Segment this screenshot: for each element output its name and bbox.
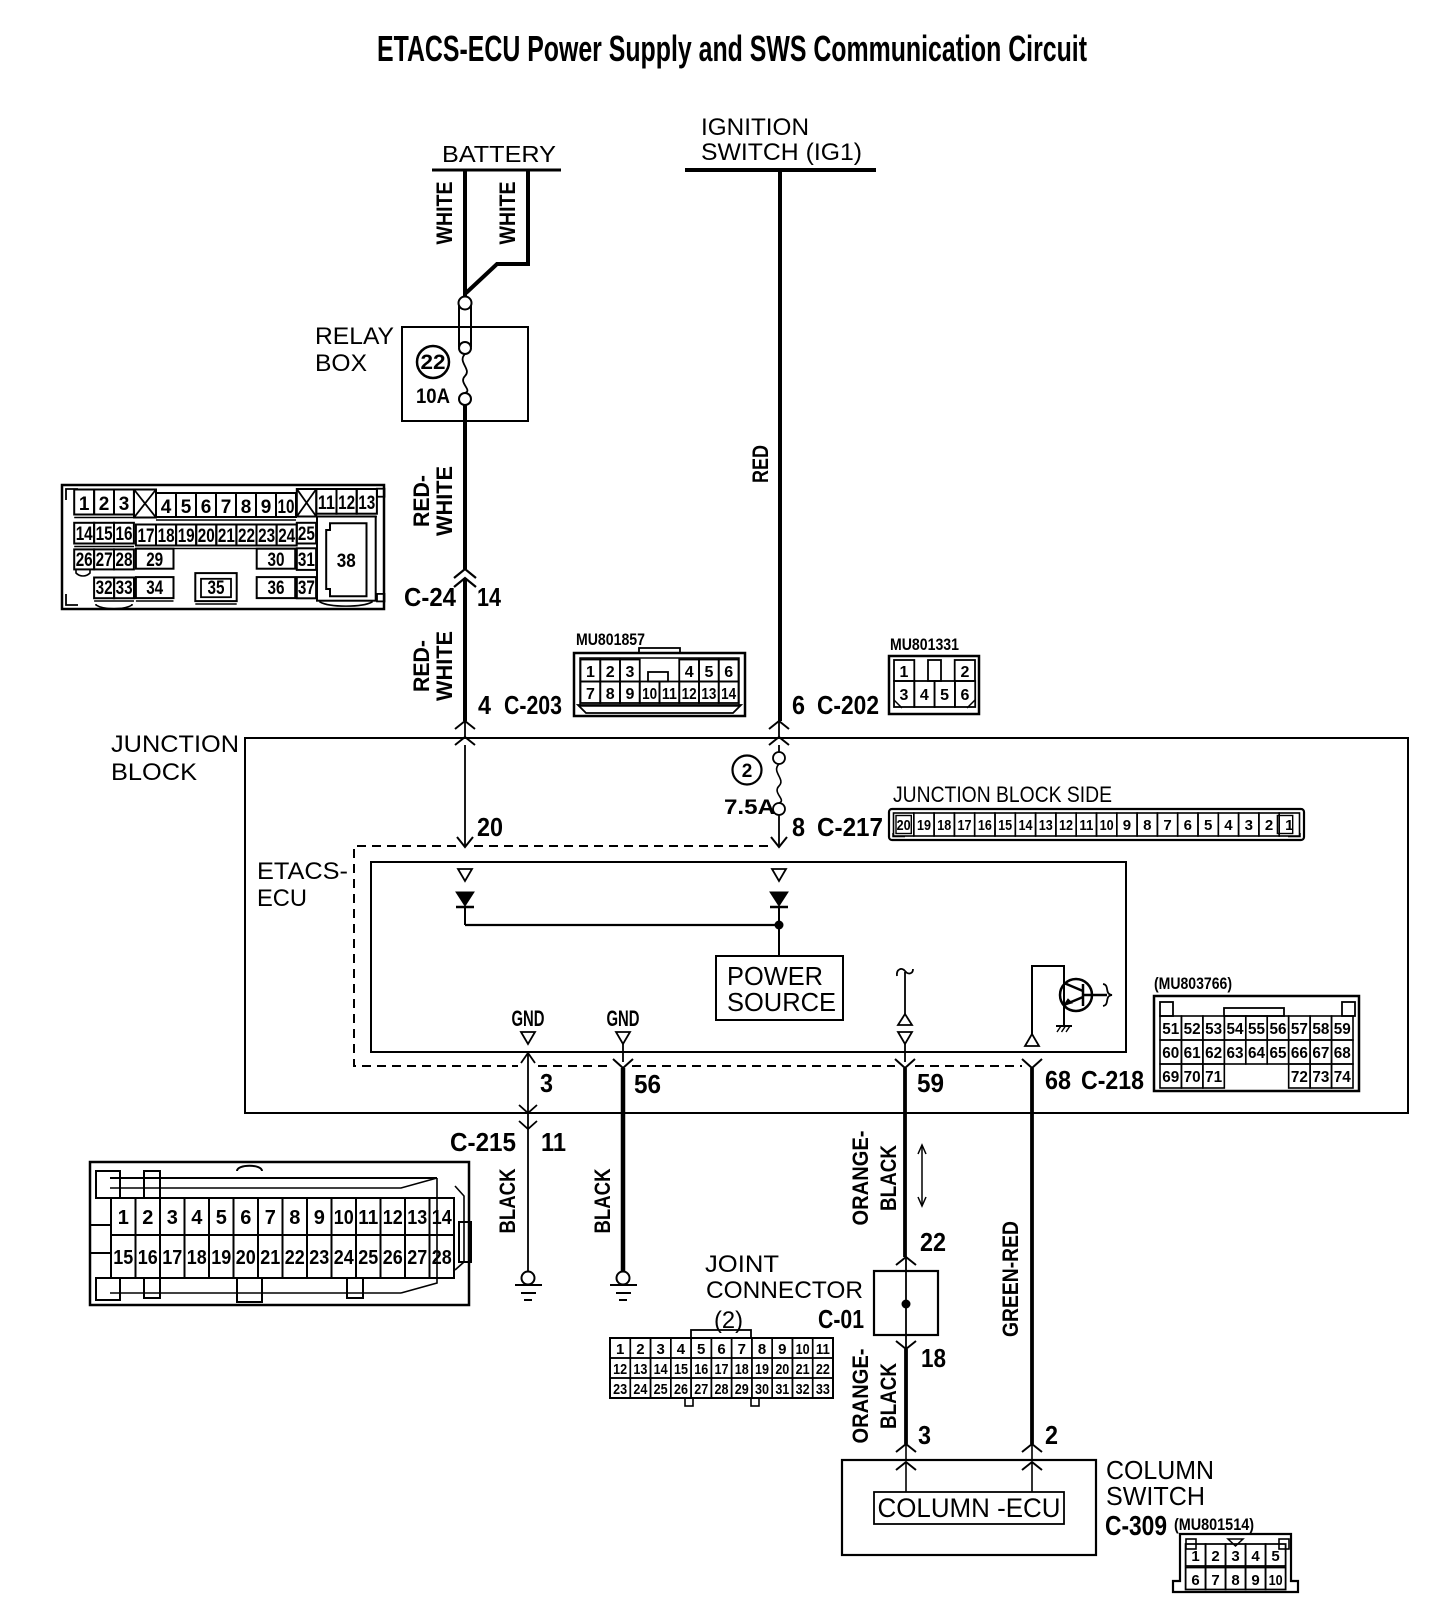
transistor emitter ground bbox=[1056, 1025, 1072, 1027]
svg-text:58: 58 bbox=[1312, 1021, 1329, 1038]
connector C-202 pin numbers bbox=[900, 664, 970, 704]
ground G2 bbox=[617, 1272, 630, 1285]
pin number 18 bbox=[896, 1341, 916, 1349]
wire RED-WHITE C-24 to C-203 bbox=[463, 578, 467, 721]
svg-text:7: 7 bbox=[1211, 1572, 1219, 1589]
svg-text:16: 16 bbox=[116, 524, 133, 545]
connector C-203 drawing bbox=[574, 648, 745, 716]
svg-text:28: 28 bbox=[715, 1381, 729, 1398]
svg-text:20: 20 bbox=[897, 817, 911, 834]
svg-text:5: 5 bbox=[1204, 817, 1212, 834]
svg-text:57: 57 bbox=[1291, 1021, 1308, 1038]
svg-text:5: 5 bbox=[216, 1207, 227, 1229]
svg-text:8: 8 bbox=[1143, 817, 1151, 834]
svg-text:19: 19 bbox=[211, 1247, 231, 1269]
svg-text:2: 2 bbox=[636, 1341, 644, 1358]
svg-text:8: 8 bbox=[606, 686, 615, 703]
wire pin 3 GND lead bbox=[527, 1052, 529, 1272]
svg-text:SWITCH: SWITCH bbox=[1106, 1481, 1205, 1511]
svg-text:ORANGE-: ORANGE- bbox=[848, 1131, 873, 1226]
svg-text:11: 11 bbox=[541, 1127, 566, 1157]
svg-text:6: 6 bbox=[201, 497, 212, 518]
svg-text:68: 68 bbox=[1045, 1065, 1071, 1095]
svg-text:9: 9 bbox=[1123, 817, 1131, 834]
svg-text:4: 4 bbox=[478, 690, 491, 720]
svg-text:5: 5 bbox=[704, 664, 713, 681]
joint connector drawing bbox=[610, 1330, 833, 1406]
wire pin 59 SWS line bbox=[904, 1044, 906, 1062]
svg-text:27: 27 bbox=[694, 1381, 708, 1398]
svg-text:7: 7 bbox=[738, 1341, 746, 1358]
svg-text:74: 74 bbox=[1334, 1069, 1351, 1086]
svg-text:WHITE: WHITE bbox=[432, 631, 457, 701]
svg-text:20: 20 bbox=[477, 812, 503, 842]
svg-text:BLACK: BLACK bbox=[495, 1168, 520, 1233]
wire pin 56 GND lead bbox=[622, 1044, 624, 1062]
svg-text:15: 15 bbox=[113, 1247, 133, 1269]
svg-text:RED-: RED- bbox=[409, 475, 434, 527]
svg-text:24: 24 bbox=[278, 526, 295, 547]
svg-text:4: 4 bbox=[161, 497, 172, 518]
svg-text:GREEN-RED: GREEN-RED bbox=[998, 1221, 1023, 1337]
svg-text:28: 28 bbox=[432, 1247, 452, 1269]
svg-text:2: 2 bbox=[606, 664, 615, 681]
svg-text:18: 18 bbox=[158, 526, 175, 547]
svg-text:3: 3 bbox=[540, 1068, 553, 1098]
svg-text:22: 22 bbox=[421, 351, 446, 374]
svg-text:1: 1 bbox=[586, 664, 595, 681]
connector crossing C-309 pin 3 bbox=[896, 1444, 916, 1452]
svg-text:RED-: RED- bbox=[409, 640, 434, 692]
column switch box bbox=[842, 1460, 1096, 1555]
connector C-218 pin numbers bbox=[1162, 1021, 1351, 1086]
svg-text:23: 23 bbox=[258, 526, 275, 547]
connector C-24 drawing bbox=[62, 485, 385, 609]
svg-text:4: 4 bbox=[920, 687, 929, 704]
svg-text:55: 55 bbox=[1248, 1021, 1265, 1038]
svg-text:9: 9 bbox=[261, 497, 272, 518]
svg-text:29: 29 bbox=[146, 550, 163, 571]
connector C-218 drawing bbox=[1154, 996, 1359, 1091]
svg-text:63: 63 bbox=[1227, 1045, 1244, 1062]
svg-text:13: 13 bbox=[358, 493, 375, 514]
svg-text:26: 26 bbox=[383, 1247, 403, 1269]
svg-text:52: 52 bbox=[1184, 1021, 1201, 1038]
svg-text:27: 27 bbox=[96, 550, 113, 571]
svg-text:11: 11 bbox=[1079, 817, 1093, 834]
fuse 2 7.5A inside junction block bbox=[778, 745, 780, 752]
svg-text:38: 38 bbox=[337, 551, 356, 572]
svg-text:12: 12 bbox=[1059, 817, 1073, 834]
svg-text:SWITCH (IG1): SWITCH (IG1) bbox=[701, 139, 862, 166]
svg-text:16: 16 bbox=[694, 1361, 708, 1378]
svg-text:15: 15 bbox=[674, 1361, 688, 1378]
svg-text:17: 17 bbox=[162, 1247, 182, 1269]
svg-text:C-309: C-309 bbox=[1105, 1510, 1167, 1541]
svg-text:16: 16 bbox=[138, 1247, 158, 1269]
svg-text:19: 19 bbox=[755, 1361, 769, 1378]
svg-text:14: 14 bbox=[432, 1207, 453, 1229]
svg-text:7: 7 bbox=[1163, 817, 1171, 834]
svg-text:WHITE: WHITE bbox=[432, 182, 457, 245]
svg-text:25: 25 bbox=[358, 1247, 378, 1269]
svg-text:25: 25 bbox=[298, 524, 315, 545]
svg-text:12: 12 bbox=[338, 493, 355, 514]
svg-text:6: 6 bbox=[240, 1207, 251, 1229]
svg-text:21: 21 bbox=[796, 1361, 810, 1378]
wire pin 68 SWS output bbox=[1022, 1059, 1042, 1068]
svg-text:7: 7 bbox=[221, 497, 232, 518]
svg-text:3: 3 bbox=[119, 494, 130, 515]
svg-text:16: 16 bbox=[978, 817, 992, 834]
svg-text:4: 4 bbox=[191, 1207, 203, 1229]
svg-text:2: 2 bbox=[961, 664, 970, 681]
svg-text:6: 6 bbox=[1191, 1572, 1199, 1589]
node junction dot bbox=[775, 921, 784, 930]
svg-text:32: 32 bbox=[796, 1381, 810, 1398]
svg-text:GND: GND bbox=[512, 1006, 545, 1031]
svg-text:10: 10 bbox=[796, 1341, 810, 1358]
svg-text:60: 60 bbox=[1162, 1045, 1179, 1062]
svg-text:5: 5 bbox=[1271, 1548, 1279, 1565]
svg-text:BLOCK: BLOCK bbox=[111, 759, 197, 786]
svg-text:26: 26 bbox=[76, 550, 93, 571]
svg-text:65: 65 bbox=[1269, 1045, 1286, 1062]
svg-text:11: 11 bbox=[318, 493, 335, 514]
svg-text:GND: GND bbox=[607, 1006, 640, 1031]
svg-text:13: 13 bbox=[633, 1361, 647, 1378]
connector crossing C-202 on junction block border bbox=[769, 721, 789, 729]
svg-text:37: 37 bbox=[298, 578, 315, 599]
svg-text:1: 1 bbox=[1285, 817, 1293, 834]
svg-text:53: 53 bbox=[1205, 1021, 1222, 1038]
svg-text:ETACS-: ETACS- bbox=[257, 858, 348, 885]
svg-text:6: 6 bbox=[960, 687, 969, 704]
svg-text:36: 36 bbox=[268, 578, 285, 599]
svg-text:12: 12 bbox=[613, 1361, 627, 1378]
wire RED ignition feed bbox=[778, 170, 782, 721]
svg-text:4: 4 bbox=[1251, 1548, 1260, 1565]
svg-text:RELAY: RELAY bbox=[315, 323, 394, 350]
svg-text:23: 23 bbox=[613, 1381, 627, 1398]
wire pin20 feed inside junction block bbox=[464, 745, 466, 846]
svg-text:8: 8 bbox=[241, 497, 252, 518]
svg-text:69: 69 bbox=[1162, 1069, 1179, 1086]
svg-text:1: 1 bbox=[79, 494, 90, 515]
svg-text:9: 9 bbox=[778, 1341, 786, 1358]
connector crossing C-309 pin 2 bbox=[1022, 1444, 1042, 1452]
svg-text:5: 5 bbox=[181, 497, 192, 518]
svg-text:3: 3 bbox=[1231, 1548, 1239, 1565]
svg-text:C-01: C-01 bbox=[818, 1304, 864, 1334]
svg-text:C-203: C-203 bbox=[504, 690, 562, 720]
ecu pin terminal at 59 bbox=[898, 1032, 912, 1044]
svg-text:COLUMN -ECU: COLUMN -ECU bbox=[878, 1493, 1061, 1523]
wire WHITE battery feed 1 bbox=[463, 170, 467, 297]
svg-text:C-202: C-202 bbox=[817, 690, 879, 720]
svg-text:15: 15 bbox=[998, 817, 1012, 834]
svg-text:10: 10 bbox=[642, 686, 657, 703]
svg-text:17: 17 bbox=[138, 526, 155, 547]
svg-text:59: 59 bbox=[917, 1068, 944, 1098]
wire base drive for transistor bbox=[1032, 966, 1064, 1046]
svg-text:11: 11 bbox=[358, 1207, 378, 1229]
svg-text:32: 32 bbox=[96, 578, 113, 599]
svg-text:17: 17 bbox=[715, 1361, 729, 1378]
svg-text:14: 14 bbox=[721, 686, 736, 703]
svg-text:4: 4 bbox=[685, 664, 694, 681]
svg-text:2: 2 bbox=[99, 494, 110, 515]
svg-text:22: 22 bbox=[285, 1247, 305, 1269]
svg-text:61: 61 bbox=[1184, 1045, 1201, 1062]
svg-text:59: 59 bbox=[1334, 1021, 1351, 1038]
svg-text:(MU803766): (MU803766) bbox=[1154, 974, 1232, 993]
svg-text:19: 19 bbox=[178, 526, 195, 547]
svg-text:19: 19 bbox=[917, 817, 931, 834]
fuse number circle 22 bbox=[417, 346, 449, 378]
svg-text:RED: RED bbox=[748, 445, 773, 483]
wire diode outputs joined bbox=[465, 924, 779, 926]
svg-text:35: 35 bbox=[208, 578, 225, 599]
ETACS-ECU dashed boundary bbox=[354, 846, 1022, 1066]
svg-text:8: 8 bbox=[289, 1207, 300, 1229]
svg-text:68: 68 bbox=[1334, 1045, 1351, 1062]
relay box bbox=[402, 327, 528, 421]
svg-text:4: 4 bbox=[677, 1341, 686, 1358]
joint connector C-01 box bbox=[896, 1257, 916, 1265]
svg-text:3: 3 bbox=[918, 1420, 931, 1450]
connector C-215 drawing bbox=[90, 1162, 471, 1305]
fuse 22 10A terminals and element bbox=[459, 297, 472, 310]
svg-text:JUNCTION BLOCK SIDE: JUNCTION BLOCK SIDE bbox=[893, 782, 1112, 807]
ETACS-ECU internal box bbox=[371, 862, 1126, 1052]
svg-text:2: 2 bbox=[742, 761, 753, 782]
svg-text:9: 9 bbox=[1251, 1572, 1259, 1589]
svg-text:22: 22 bbox=[920, 1227, 946, 1257]
svg-text:ORANGE-: ORANGE- bbox=[848, 1349, 873, 1444]
svg-text:SOURCE: SOURCE bbox=[727, 987, 836, 1017]
svg-text:ETACS-ECU Power Supply and SWS: ETACS-ECU Power Supply and SWS Communica… bbox=[377, 28, 1087, 69]
ecu pin terminal at 8 bbox=[772, 869, 786, 881]
svg-text:22: 22 bbox=[816, 1361, 830, 1378]
wire RED-WHITE relay to C-24 bbox=[463, 405, 467, 569]
svg-text:18: 18 bbox=[937, 817, 951, 834]
ecu pin terminal at 20 bbox=[458, 869, 472, 881]
connector C-24 pin numbers bbox=[76, 493, 376, 599]
svg-text:18: 18 bbox=[187, 1247, 207, 1269]
joint connector pin numbers bbox=[613, 1341, 830, 1398]
svg-text:56: 56 bbox=[1269, 1021, 1286, 1038]
svg-text:11: 11 bbox=[816, 1341, 830, 1358]
svg-text:12: 12 bbox=[383, 1207, 403, 1229]
svg-text:C-218: C-218 bbox=[1081, 1065, 1144, 1095]
svg-text:29: 29 bbox=[735, 1381, 749, 1398]
connector C-309 pin numbers bbox=[1191, 1548, 1282, 1589]
transistor Q1 bbox=[1060, 979, 1112, 1011]
connector C-217 pin numbers bbox=[897, 817, 1294, 834]
bidirectional signal arrow bbox=[921, 1146, 923, 1205]
svg-text:24: 24 bbox=[633, 1381, 648, 1398]
svg-text:13: 13 bbox=[701, 686, 716, 703]
svg-text:BOX: BOX bbox=[315, 350, 367, 377]
svg-text:BLACK: BLACK bbox=[876, 1145, 901, 1211]
svg-text:26: 26 bbox=[674, 1381, 688, 1398]
svg-text:WHITE: WHITE bbox=[495, 182, 520, 245]
svg-text:CONNECTOR: CONNECTOR bbox=[706, 1277, 863, 1304]
svg-text:14: 14 bbox=[654, 1361, 669, 1378]
svg-text:54: 54 bbox=[1227, 1021, 1244, 1038]
svg-text:IGNITION: IGNITION bbox=[701, 114, 809, 141]
connector C-202 drawing bbox=[889, 656, 979, 714]
svg-text:C-24: C-24 bbox=[404, 582, 456, 612]
svg-text:BATTERY: BATTERY bbox=[442, 141, 556, 167]
svg-text:28: 28 bbox=[116, 550, 133, 571]
svg-text:14: 14 bbox=[1018, 817, 1033, 834]
connector C-203 pin numbers bbox=[586, 664, 736, 703]
svg-text:9: 9 bbox=[625, 686, 634, 703]
svg-text:24: 24 bbox=[334, 1247, 355, 1269]
svg-text:27: 27 bbox=[407, 1247, 427, 1269]
diode D1 bbox=[456, 892, 474, 906]
sws signal source symbol bbox=[897, 969, 913, 976]
svg-text:13: 13 bbox=[407, 1207, 427, 1229]
svg-text:22: 22 bbox=[238, 526, 255, 547]
svg-text:56: 56 bbox=[634, 1069, 661, 1099]
svg-text:3: 3 bbox=[625, 664, 634, 681]
svg-text:6: 6 bbox=[1184, 817, 1192, 834]
svg-text:8: 8 bbox=[792, 812, 805, 842]
svg-text:20: 20 bbox=[236, 1247, 256, 1269]
svg-text:WHITE: WHITE bbox=[432, 466, 457, 536]
svg-text:9: 9 bbox=[314, 1207, 325, 1229]
connector crossing C-24 bbox=[454, 569, 476, 578]
svg-text:8: 8 bbox=[758, 1341, 766, 1358]
svg-text:5: 5 bbox=[940, 687, 949, 704]
connector C-217 drawing bbox=[889, 809, 1304, 840]
svg-text:12: 12 bbox=[682, 686, 697, 703]
svg-text:4: 4 bbox=[1224, 817, 1233, 834]
ecu pin terminal at 68 bbox=[1025, 1034, 1039, 1046]
junction block boundary bbox=[245, 738, 1408, 1113]
ground G1 bbox=[522, 1272, 535, 1285]
svg-text:71: 71 bbox=[1205, 1069, 1222, 1086]
svg-text:3: 3 bbox=[1245, 817, 1253, 834]
svg-text:17: 17 bbox=[958, 817, 972, 834]
svg-text:33: 33 bbox=[816, 1381, 830, 1398]
svg-text:MU801857: MU801857 bbox=[576, 630, 645, 649]
svg-text:30: 30 bbox=[268, 550, 285, 571]
svg-text:18: 18 bbox=[921, 1343, 946, 1373]
svg-text:1: 1 bbox=[616, 1341, 624, 1358]
svg-text:13: 13 bbox=[1039, 817, 1053, 834]
svg-text:ECU: ECU bbox=[257, 885, 307, 912]
svg-text:51: 51 bbox=[1162, 1021, 1179, 1038]
svg-text:7.5A: 7.5A bbox=[724, 796, 775, 819]
svg-text:15: 15 bbox=[96, 524, 113, 545]
svg-text:14: 14 bbox=[477, 582, 501, 612]
svg-text:7: 7 bbox=[586, 686, 595, 703]
svg-text:18: 18 bbox=[735, 1361, 749, 1378]
svg-text:3: 3 bbox=[167, 1207, 178, 1229]
svg-text:72: 72 bbox=[1291, 1069, 1308, 1086]
svg-text:73: 73 bbox=[1312, 1069, 1329, 1086]
svg-text:64: 64 bbox=[1248, 1045, 1265, 1062]
power source block bbox=[716, 956, 843, 1020]
svg-text:6: 6 bbox=[792, 690, 805, 720]
svg-text:MU801331: MU801331 bbox=[890, 635, 959, 654]
svg-text:(MU801514): (MU801514) bbox=[1174, 1515, 1254, 1534]
svg-text:34: 34 bbox=[146, 578, 163, 599]
svg-text:C-215: C-215 bbox=[450, 1127, 516, 1157]
svg-text:C-217: C-217 bbox=[817, 812, 883, 842]
svg-text:10: 10 bbox=[1269, 1572, 1283, 1589]
wire WHITE battery feed 2 bbox=[466, 170, 528, 293]
svg-text:66: 66 bbox=[1291, 1045, 1308, 1062]
svg-text:33: 33 bbox=[116, 578, 133, 599]
svg-text:14: 14 bbox=[76, 524, 93, 545]
svg-text:70: 70 bbox=[1184, 1069, 1201, 1086]
svg-text:2: 2 bbox=[1265, 817, 1273, 834]
svg-text:10: 10 bbox=[278, 497, 295, 518]
svg-text:2: 2 bbox=[1211, 1548, 1219, 1565]
svg-text:BLACK: BLACK bbox=[876, 1363, 901, 1429]
fuse number circle 2 bbox=[733, 756, 762, 785]
connector crossing C-203 on junction block border bbox=[455, 721, 475, 729]
svg-text:20: 20 bbox=[198, 526, 215, 547]
svg-text:21: 21 bbox=[260, 1247, 280, 1269]
connector C-309 drawing bbox=[1173, 1534, 1298, 1592]
svg-text:8: 8 bbox=[1231, 1572, 1239, 1589]
svg-text:JUNCTION: JUNCTION bbox=[111, 731, 239, 758]
svg-text:1: 1 bbox=[1191, 1548, 1199, 1565]
svg-text:BLACK: BLACK bbox=[590, 1168, 615, 1233]
svg-text:1: 1 bbox=[900, 664, 909, 681]
svg-text:3: 3 bbox=[657, 1341, 665, 1358]
connector C-215 pin numbers bbox=[113, 1207, 452, 1269]
svg-text:31: 31 bbox=[298, 550, 315, 571]
svg-text:10: 10 bbox=[1100, 817, 1114, 834]
svg-text:2: 2 bbox=[1045, 1420, 1058, 1450]
svg-text:20: 20 bbox=[775, 1361, 789, 1378]
svg-text:JOINT: JOINT bbox=[705, 1251, 779, 1278]
svg-text:31: 31 bbox=[775, 1381, 789, 1398]
diode D2 bbox=[770, 892, 788, 906]
svg-text:10: 10 bbox=[334, 1207, 354, 1229]
svg-text:23: 23 bbox=[309, 1247, 329, 1269]
svg-text:25: 25 bbox=[654, 1381, 668, 1398]
svg-text:6: 6 bbox=[724, 664, 733, 681]
svg-text:11: 11 bbox=[662, 686, 677, 703]
svg-text:7: 7 bbox=[265, 1207, 276, 1229]
svg-text:62: 62 bbox=[1205, 1045, 1222, 1062]
svg-text:67: 67 bbox=[1312, 1045, 1329, 1062]
svg-text:1: 1 bbox=[118, 1207, 129, 1229]
svg-text:6: 6 bbox=[717, 1341, 725, 1358]
svg-text:2: 2 bbox=[142, 1207, 153, 1229]
column ecu block bbox=[874, 1492, 1064, 1524]
svg-text:5: 5 bbox=[697, 1341, 705, 1358]
svg-text:10A: 10A bbox=[416, 385, 450, 408]
svg-text:21: 21 bbox=[218, 526, 235, 547]
svg-text:3: 3 bbox=[900, 687, 909, 704]
svg-text:30: 30 bbox=[755, 1381, 769, 1398]
